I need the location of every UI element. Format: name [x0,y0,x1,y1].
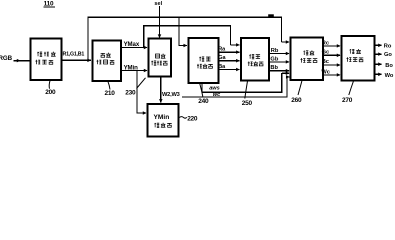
wire Bc [323,64,340,66]
wire R1,G1,B1 [61,59,91,61]
block 210 luminance detector [93,41,122,82]
svg-text:210: 210 [105,90,116,97]
wire YMin [121,70,147,72]
leader for label 230 [137,78,146,89]
svg-text:Bo: Bo [385,63,393,69]
wire Bb [269,70,289,72]
svg-text:260: 260 [291,97,302,104]
wire stub into block 260 [282,41,290,43]
svg-text:RGB: RGB [0,55,13,62]
leader for label 250 [245,81,248,99]
wire sel down into white selector [159,6,161,38]
leader for label 200 [48,81,51,89]
wire branch down into multiplier [179,17,187,45]
leader for label 240 [200,84,203,97]
wire W2,W3 down into YMin calculator [160,77,162,103]
block 200 inverse gamma correction [31,38,62,80]
block 240 multiplier [188,38,218,83]
wire output Ro [375,44,382,46]
svg-text:W2,W3: W2,W3 [162,92,180,98]
svg-text:Ro: Ro [384,43,392,49]
block 270 gamma corrector [342,36,375,80]
block 260 color corrector [291,38,323,80]
wire aws to color corrector [202,73,289,92]
svg-text:wc: wc [213,92,221,98]
block 220 YMin calculator [148,104,179,136]
svg-text:YMin: YMin [154,114,170,121]
wire Ra [219,51,240,53]
block 250 divider [241,38,269,81]
svg-text:Go: Go [384,52,392,58]
leader squiggle for label 220 [180,117,187,119]
svg-text:270: 270 [342,97,353,104]
leader for label 270 [349,81,354,95]
wire wc to color corrector [182,77,290,97]
wire Gc [323,54,340,56]
block 230 white selector [149,39,171,77]
wire Gb [269,61,289,63]
wire Wc [323,74,340,76]
junction blob on top rail [268,14,274,17]
wire Ga [219,60,240,62]
svg-text:220: 220 [187,116,198,123]
leader for label 210 [108,82,110,90]
wire output Bo [375,63,382,65]
wire output Go [375,53,382,55]
svg-text:200: 200 [45,89,56,96]
wire Rc [323,45,340,47]
svg-text:230: 230 [125,90,136,97]
wire YMax [121,47,147,49]
wire branch up to top rail [88,17,282,60]
svg-text:aws: aws [209,85,220,91]
svg-text:R1,G1,B1: R1,G1,B1 [63,52,85,58]
wire YMax branch over top to divider [144,26,240,48]
wire RGB input arrow [14,60,21,62]
wire Ba [219,69,240,71]
svg-text:240: 240 [198,98,209,105]
leader for label 260 [298,81,302,96]
svg-text:250: 250 [242,100,253,107]
svg-text:Wo: Wo [385,73,394,79]
wire output Wo [375,73,382,75]
wire YMin branch down to YMin calculator [137,71,146,114]
svg-text:sel: sel [154,1,162,7]
svg-text:Bc: Bc [322,59,329,65]
wire Rb [269,53,289,55]
